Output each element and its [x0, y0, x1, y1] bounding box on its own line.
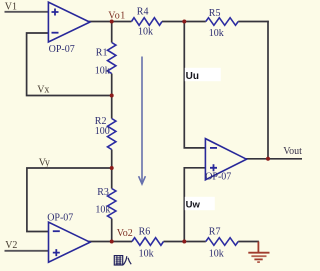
wire node Uw vertical from U3 + input down to bottom rail — [184, 168, 206, 242]
resistor R2 100 (zigzag) — [108, 119, 116, 150]
svg-text:Uu: Uu — [186, 71, 199, 82]
svg-text:10k: 10k — [209, 28, 224, 39]
svg-text:OP-07: OP-07 — [49, 44, 75, 55]
op-amp U3 plus input symbol — [210, 164, 217, 171]
svg-text:OP-07: OP-07 — [47, 213, 73, 224]
svg-text:R1: R1 — [96, 48, 108, 59]
node Uw label white highlight — [185, 197, 215, 210]
node Vout junction dot — [266, 157, 270, 161]
resistor R7 10k (zigzag) — [206, 238, 238, 246]
arrow current direction down the chain — [141, 57, 143, 184]
svg-text:10k: 10k — [95, 65, 110, 76]
op-amp U3 OP-07 right triangle — [205, 139, 246, 180]
resistor R5 10k (zigzag) — [206, 18, 238, 26]
svg-text:V2: V2 — [5, 240, 17, 251]
svg-text:Vx: Vx — [37, 85, 49, 96]
wire V2 input to U2 + — [5, 250, 49, 252]
wire V1 input to U1 + — [5, 11, 49, 13]
resistor R1 10k (zigzag) — [108, 43, 116, 74]
wire R7 to ground — [238, 241, 259, 243]
op-amp U3 minus input symbol — [210, 147, 217, 149]
svg-text:OP-07: OP-07 — [205, 172, 231, 183]
svg-text:10k: 10k — [209, 249, 224, 260]
wire R4 right to junction and R5 — [162, 21, 206, 23]
node Vo1 junction dot — [110, 20, 114, 24]
op-amp U2 OP-07 bottom-left triangle — [49, 222, 91, 262]
wire R6 to Uw junction and R7 — [164, 241, 206, 243]
svg-text:Vy: Vy — [39, 158, 50, 169]
wire R5 right to right corner — [238, 21, 269, 23]
svg-text:V1: V1 — [5, 2, 17, 13]
svg-text:Vo1: Vo1 — [108, 10, 125, 21]
wire U1 - input feedback loop to node Vx — [27, 33, 112, 96]
op-amp U2 minus input symbol — [53, 230, 60, 232]
resistor R6 10k (zigzag) — [132, 238, 164, 246]
resistor R4 10k (zigzag) — [132, 18, 163, 26]
node Vo2 junction dot — [110, 240, 114, 244]
caption figure-eight (CJK) drawn glyphs — [114, 256, 131, 265]
svg-text:Vo2: Vo2 — [117, 228, 133, 239]
node junction dot R4/R5/Uu — [182, 20, 186, 24]
wire node Uu vertical down to U3 - input — [184, 22, 206, 148]
svg-text:R4: R4 — [137, 7, 149, 18]
op-amp U2 plus input symbol — [53, 249, 60, 256]
wire R3 to Vo2 node — [111, 219, 113, 242]
wire R2 to Vy node — [111, 150, 113, 189]
wire bottom rail U2 output to Vo2 and R6 — [88, 241, 132, 243]
svg-text:10k: 10k — [139, 249, 154, 260]
node junction dot R6/R7/Uw — [182, 240, 186, 244]
svg-text:100: 100 — [95, 126, 110, 137]
op-amp U1 OP-07 top-left triangle — [48, 2, 89, 42]
svg-text:R6: R6 — [139, 227, 151, 238]
wire feedback vertical right side down to Vout node — [267, 21, 269, 159]
svg-text:R5: R5 — [209, 8, 221, 19]
op-amp U1 plus input symbol — [52, 9, 59, 16]
wire R1 to Vx node — [111, 74, 113, 119]
node Vy junction dot — [110, 166, 114, 170]
wire U3 output to Vout — [245, 158, 302, 160]
svg-text:R7: R7 — [209, 226, 221, 237]
node Vx junction dot — [110, 94, 114, 98]
wire node Vy loop to U2 - input — [27, 168, 112, 232]
svg-text:Uw: Uw — [186, 200, 201, 211]
resistor R3 10k (zigzag) — [108, 189, 116, 219]
ground symbol — [248, 242, 269, 263]
op-amp U1 minus input symbol — [52, 32, 59, 34]
wire resistor chain vertical Vo1-R1 — [111, 21, 113, 43]
wire top rail U1 output to Vo1 node — [88, 21, 132, 23]
svg-text:Vout: Vout — [283, 146, 302, 157]
svg-text:10k: 10k — [95, 204, 110, 215]
svg-text:R3: R3 — [97, 187, 109, 198]
node Uu label white highlight — [185, 68, 221, 81]
svg-text:10k: 10k — [138, 26, 153, 37]
